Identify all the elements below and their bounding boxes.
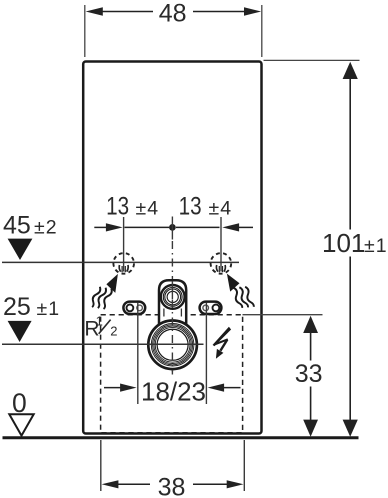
- svg-text:13: 13: [179, 192, 202, 220]
- extension line 38 right: [243, 440, 245, 491]
- svg-text:2: 2: [110, 324, 117, 339]
- centerline through drain: [171, 300, 173, 375]
- water flow symbol right: [227, 274, 254, 312]
- dashed installation zone: [101, 315, 243, 433]
- svg-text:25: 25: [3, 293, 31, 321]
- dimension 13-13 line: [94, 223, 253, 231]
- extension line 38 left: [100, 440, 102, 491]
- centerline vertical: [171, 217, 173, 240]
- supply pipe inner ticks: [163, 309, 165, 317]
- extension line 33 level: [243, 314, 323, 316]
- level line 45: [2, 261, 239, 263]
- svg-text:18/23: 18/23: [141, 377, 206, 407]
- dimension 33: [303, 316, 318, 437]
- datum triangle 25: [8, 321, 32, 342]
- svg-text:101: 101: [322, 228, 365, 258]
- extension line top right: [264, 59, 360, 61]
- svg-text:33: 33: [295, 360, 323, 388]
- svg-text:45: 45: [3, 211, 31, 239]
- dimension 18/23: [104, 384, 241, 392]
- svg-text:±4: ±4: [136, 197, 160, 219]
- panel outline: [83, 62, 261, 434]
- fastening capsule left: [123, 302, 145, 314]
- water connection circle right dashed: [211, 253, 232, 274]
- floor line: [3, 436, 359, 439]
- dimension 38: [102, 480, 244, 488]
- dimension 48 width: [85, 5, 262, 57]
- extension line 13 left: [123, 217, 125, 272]
- svg-text:±1: ±1: [37, 298, 61, 320]
- svg-text:±2: ±2: [34, 216, 58, 238]
- datum triangle 45: [8, 239, 33, 260]
- extension line 13 right: [220, 217, 222, 272]
- supply pipe capsule: [159, 280, 186, 324]
- fastening capsule right: [200, 302, 222, 314]
- extension line 18/23 left: [137, 303, 139, 405]
- electrical flash symbol: [213, 327, 232, 359]
- water flow symbol left: [89, 274, 118, 312]
- svg-text:±1: ±1: [364, 235, 388, 257]
- extension line 18/23 right: [205, 303, 207, 405]
- water connection circle left dashed: [113, 253, 134, 274]
- supply pipe centerline solid: [171, 281, 173, 300]
- drain pipe circle: [148, 321, 197, 370]
- svg-text:38: 38: [158, 473, 186, 498]
- datum triangle 0 open: [9, 414, 33, 435]
- svg-text:±4: ±4: [209, 197, 233, 219]
- dimension 101 plus-minus 1 height: [343, 62, 358, 437]
- svg-text:48: 48: [159, 0, 187, 27]
- svg-text:1: 1: [96, 314, 103, 329]
- svg-text:13: 13: [106, 192, 129, 220]
- label R half: [84, 314, 117, 341]
- supply pipe rings: [161, 285, 185, 309]
- level line 25 crosshair: [2, 343, 204, 345]
